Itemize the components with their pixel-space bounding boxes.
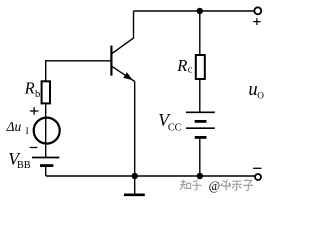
transistor Q1 collector diagonal [111,38,134,54]
resistor Rb [42,81,50,103]
wire VCC bottom [199,137,201,176]
node output+ terminal [254,7,261,14]
wire Rb bottom to source [45,103,47,157]
svg-text:R: R [176,56,187,75]
battery VBB short plate [40,164,53,167]
svg-text:BB: BB [17,160,31,171]
svg-text:I: I [26,126,29,136]
svg-text:O: O [257,91,264,101]
char dong [232,181,242,190]
battery VCC long plate 2 [186,127,215,129]
wire bottom rail [46,175,255,177]
node Rc top junction dot [197,8,203,14]
transistor Q1 emitter arrow [123,72,133,80]
label - (source minus) [30,147,38,149]
wire collector vertical [133,11,135,39]
label + (source plus) [30,107,39,115]
svg-text:R: R [24,79,35,98]
wire top rail [134,10,255,12]
svg-text:CC: CC [168,122,182,133]
node VCC bottom junction dot [197,173,203,179]
battery VCC long plate 1 [186,111,215,113]
char hua [221,180,231,191]
wire Rc top [199,11,201,55]
transistor Q1 emitter diagonal [111,66,135,82]
node emitter junction dot [132,173,138,179]
watermark zhihu [180,180,253,191]
wire emitter vertical [134,82,136,177]
battery VCC short plate 1 [195,120,207,123]
label + (output plus) [253,18,260,25]
wire base horizontal [46,60,112,62]
char zhi [180,180,190,191]
node output- terminal [255,174,261,180]
ground bar [124,194,145,197]
svg-text:Δu: Δu [6,119,22,134]
svg-text:c: c [188,65,193,76]
battery VBB long plate [32,157,59,159]
ground stub [134,176,136,194]
char zi [243,180,253,190]
resistor Rc [196,55,205,79]
wire VBB bottom [45,166,47,176]
wire Rc bottom [199,79,201,112]
char hu [192,180,201,191]
svg-text:b: b [35,89,40,100]
svg-text:@: @ [209,179,221,193]
wire Rb top [45,60,47,81]
transistor Q1 base bar [110,46,112,76]
label - (output minus) [253,167,262,169]
source delta-uI circle [34,118,60,144]
battery VCC short plate 2 [195,136,207,139]
